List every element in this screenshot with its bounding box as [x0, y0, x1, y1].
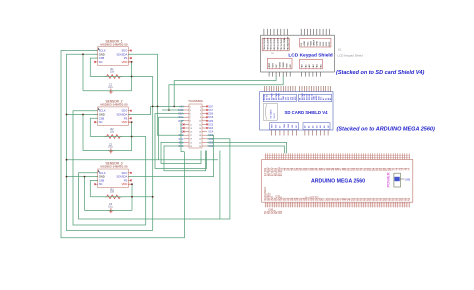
module U1 LCD Keypad Shield	[261, 29, 335, 77]
sensor U3 SENSOR_2 MS5803-14BA01-00	[94, 100, 132, 126]
svg-text:NC2: NC2	[295, 97, 297, 100]
svg-text:1: 1	[190, 106, 191, 108]
wire TCA SCL under-box	[159, 117, 185, 160]
wire TCA SDA under-box	[155, 114, 207, 169]
svg-text:4: 4	[310, 46, 311, 48]
svg-text:GND: GND	[283, 62, 285, 67]
svg-text:VDD: VDD	[122, 60, 128, 64]
svg-text:MS5803-14BA01-00: MS5803-14BA01-00	[100, 165, 128, 169]
module U2 Arduino Mega 2560	[262, 153, 413, 214]
svg-text:A0: A0	[304, 126, 307, 128]
wire TCA GND row	[162, 109, 184, 111]
wire TCA SC2 to Arduino pin20	[207, 146, 284, 153]
svg-text:NC: NC	[99, 120, 103, 124]
svg-text:SD2: SD2	[208, 141, 213, 144]
wire sensor1 SCLK to left rail	[61, 51, 185, 238]
svg-text:6: 6	[280, 50, 281, 52]
svg-text:USB: USB	[405, 177, 411, 181]
svg-text:TCA9548A: TCA9548A	[188, 99, 203, 103]
svg-text:LCD Keypad Shield: LCD Keypad Shield	[338, 54, 364, 58]
svg-text:ARDUINO MEGA 2560: ARDUINO MEGA 2560	[311, 179, 365, 185]
svg-text:GND: GND	[317, 40, 319, 45]
junction VIN sensor1 SDA	[157, 106, 159, 108]
wire TCA VIN row	[151, 105, 185, 107]
wire sensor1 VDD stub	[128, 61, 131, 63]
svg-text:SDI/SDA: SDI/SDA	[117, 113, 128, 117]
wire R2 row	[90, 136, 131, 138]
capacitor C2 0.1u	[108, 143, 114, 153]
junction sensor2 VDD	[131, 121, 133, 123]
svg-text:LCD Keypad Shield: LCD Keypad Shield	[288, 52, 332, 58]
junction VIN 5V rail	[173, 106, 175, 108]
annotation stacked on SD card shield	[336, 70, 424, 76]
svg-text:2: 2	[305, 68, 306, 70]
svg-text:3: 3	[276, 68, 277, 70]
svg-text:SC3: SC3	[208, 138, 213, 141]
wire sensor3 VDD vertical	[131, 184, 133, 210]
junction sensor2 GND C2	[82, 114, 84, 116]
svg-text:U1: U1	[338, 48, 342, 52]
svg-text:NC: NC	[99, 60, 103, 64]
wire sensor1 CSB to R1	[90, 58, 97, 76]
svg-text:9: 9	[190, 121, 191, 123]
svg-text:CSB: CSB	[99, 178, 105, 182]
svg-text:SCL: SCL	[179, 116, 184, 119]
wire TCA SC1 row	[164, 146, 206, 171]
svg-text:D6 LCD D6: D6 LCD D6	[277, 37, 279, 49]
svg-text:10: 10	[328, 46, 330, 48]
wire R3 extension	[132, 196, 153, 198]
junction sensor1 GND C1	[82, 53, 84, 55]
svg-text:13: 13	[190, 128, 192, 130]
wire sensor3 VDD stub	[128, 183, 132, 185]
wire sensor3 SDA to TCA SD3	[128, 135, 213, 176]
svg-text:SDA: SDA	[310, 41, 313, 46]
svg-text:16: 16	[199, 132, 201, 134]
svg-text:D10 LCDBL: D10 LCDBL	[284, 37, 286, 50]
svg-text:SC2: SC2	[208, 145, 213, 148]
wire sensor3 GND stub	[67, 176, 98, 178]
svg-text:3V3: 3V3	[276, 125, 278, 128]
svg-text:PS: PS	[124, 178, 128, 182]
wire sensor1 VDD vertical	[131, 62, 133, 91]
capacitor C1 0.1u	[108, 84, 114, 94]
resistor R1 10k	[105, 68, 123, 78]
junction sensor1 VDD	[131, 61, 133, 63]
svg-text:23: 23	[190, 146, 192, 148]
junction R2 VDD	[131, 136, 133, 138]
sensor U2 SENSOR_1 MS5803-14BA01-00	[94, 39, 132, 65]
svg-text:NC: NC	[290, 64, 292, 68]
svg-text:SDA: SDA	[178, 113, 183, 116]
svg-text:MS5803-14BA01-00: MS5803-14BA01-00	[100, 103, 128, 107]
wire sensor1 GND to ground rail	[67, 54, 153, 230]
junction sensor3 GND C3	[84, 176, 86, 178]
wire TCA RST	[181, 121, 185, 152]
svg-text:GND: GND	[99, 113, 105, 117]
svg-text:POWER: POWER	[385, 172, 390, 187]
svg-text:4: 4	[279, 68, 280, 70]
svg-text:6: 6	[316, 46, 317, 48]
svg-text:SD3: SD3	[208, 134, 213, 137]
svg-text:SDI/SDA: SDI/SDA	[117, 52, 128, 56]
resistor R2 10k	[105, 128, 123, 138]
svg-text:2: 2	[304, 46, 305, 48]
svg-text:2: 2	[272, 68, 273, 70]
svg-text:2: 2	[200, 106, 201, 108]
svg-text:VIN: VIN	[179, 105, 183, 108]
wire C3 row	[85, 209, 133, 211]
svg-text:18: 18	[199, 135, 201, 137]
svg-text:SCLK: SCLK	[99, 171, 106, 175]
svg-text:SC4: SC4	[208, 131, 213, 134]
wire C1 row	[83, 90, 132, 92]
wire C1 ground vertical	[82, 54, 84, 91]
svg-text:SLOT: SLOT	[274, 112, 276, 118]
svg-text:SD6: SD6	[208, 113, 213, 116]
svg-text:3: 3	[270, 50, 271, 52]
svg-text:10: 10	[199, 121, 201, 123]
svg-text:21: 21	[190, 142, 192, 144]
svg-text:SC5: SC5	[208, 123, 213, 126]
svg-text:3: 3	[309, 68, 310, 70]
svg-text:8: 8	[323, 46, 324, 48]
svg-text:12: 12	[199, 124, 201, 126]
svg-text:1: 1	[269, 68, 270, 70]
svg-text:6: 6	[200, 114, 201, 116]
wire C2 ground vertical	[82, 115, 84, 151]
wire sensor1 SDA to TCA SD0	[128, 54, 184, 135]
svg-text:CSB: CSB	[99, 56, 105, 60]
svg-text:SD7: SD7	[208, 105, 213, 108]
svg-text:A4: A4	[319, 126, 322, 128]
svg-text:GND: GND	[178, 109, 184, 112]
label U1 designator	[338, 48, 364, 58]
svg-text:VDD: VDD	[122, 182, 128, 186]
svg-text:15: 15	[190, 132, 192, 134]
svg-text:CSB: CSB	[99, 116, 105, 120]
svg-text:24: 24	[199, 146, 201, 148]
svg-text:PS: PS	[124, 56, 128, 60]
svg-text:GND: GND	[99, 52, 105, 56]
svg-text:19: 19	[190, 139, 192, 141]
svg-text:22: 22	[199, 142, 201, 144]
svg-text:SDO: SDO	[121, 49, 127, 53]
wire sensor2 SDA to VIN row	[128, 106, 150, 114]
junction sensor2 GND rail	[66, 114, 68, 116]
svg-text:3: 3	[190, 110, 191, 112]
wire vertical below TCA	[219, 151, 221, 220]
wire ground return under TCA	[67, 159, 219, 161]
junction R3 VDD	[131, 196, 133, 198]
wire sensor2 VDD vertical	[131, 122, 133, 151]
wire C3 ground vertical	[84, 177, 86, 211]
svg-text:0.1u: 0.1u	[108, 206, 113, 208]
svg-text:7: 7	[190, 117, 191, 119]
svg-text:SD4: SD4	[208, 127, 213, 130]
svg-text:D8 LCD RS: D8 LCD RS	[264, 37, 266, 49]
wire R1 row	[90, 76, 131, 78]
svg-text:SDO: SDO	[121, 109, 127, 113]
wire GND rail	[169, 76, 283, 110]
svg-text:SCLK: SCLK	[99, 109, 106, 113]
svg-text:D9 LCD EN: D9 LCD EN	[267, 37, 269, 49]
svg-text:GND: GND	[288, 123, 290, 128]
junction R1 VDD	[131, 76, 133, 78]
svg-text:D4 LCD D4: D4 LCD D4	[270, 37, 273, 49]
svg-text:GND: GND	[99, 175, 105, 179]
svg-text:2: 2	[267, 50, 268, 52]
svg-text:5: 5	[190, 114, 191, 116]
I2C multiplexer TCA9548A	[178, 99, 214, 148]
svg-text:MS5803-14BA01-00: MS5803-14BA01-00	[100, 42, 128, 46]
svg-text:SCLK: SCLK	[99, 49, 106, 53]
svg-text:11: 11	[190, 124, 192, 126]
wire TCA SD1 row	[161, 142, 201, 163]
svg-text:GND: GND	[280, 62, 282, 67]
svg-text:7: 7	[284, 50, 285, 52]
svg-text:0.1u: 0.1u	[108, 147, 113, 149]
svg-text:D4: D4	[271, 53, 273, 55]
resistor R3 10k	[105, 188, 123, 198]
svg-text:8: 8	[200, 117, 201, 119]
wire sensor2 VDD stub	[128, 121, 131, 123]
svg-text:VIN: VIN	[287, 63, 289, 67]
svg-text:4: 4	[200, 110, 201, 112]
wire 5V rail	[174, 76, 276, 106]
svg-text:RST: RST	[269, 62, 271, 67]
junction VIN R1ext	[152, 106, 154, 108]
junction sensor3 VDD	[131, 183, 133, 185]
svg-text:0.1u: 0.1u	[108, 87, 113, 89]
svg-text:14: 14	[199, 128, 201, 130]
svg-text:PS: PS	[124, 116, 128, 120]
svg-text:17: 17	[190, 135, 192, 137]
svg-text:GND: GND	[284, 123, 286, 128]
svg-text:(Stacked on to SD card Shield: (Stacked on to SD card Shield V4)	[336, 70, 424, 76]
wire R1 extension long vertical	[132, 77, 153, 231]
capacitor C3 0.1u	[108, 203, 114, 213]
svg-text:A3: A3	[329, 98, 332, 100]
wire C2 row	[83, 150, 132, 152]
svg-text:D5 LCD D5: D5 LCD D5	[274, 37, 276, 49]
wire sensor3 SCLK to rail	[79, 139, 230, 219]
wire R3 row	[90, 196, 132, 198]
junction ground return rail	[66, 159, 68, 161]
svg-text:SDO: SDO	[121, 171, 127, 175]
svg-text:20: 20	[199, 139, 201, 141]
junction sensor3 GND rail	[66, 176, 68, 178]
svg-text:GND: GND	[304, 40, 306, 45]
svg-text:A1: A1	[308, 126, 311, 128]
svg-text:SD CARD SHIELD V4: SD CARD SHIELD V4	[285, 110, 329, 115]
svg-text:A3: A3	[315, 126, 318, 128]
wire sensor2 GND stub	[67, 114, 98, 116]
svg-text:D7 LCD D7: D7 LCD D7	[281, 37, 283, 49]
svg-text:A0 BUTTON: A0 BUTTON	[287, 36, 290, 49]
wire sensor2 CSB to R2	[90, 118, 97, 136]
svg-text:SD5: SD5	[208, 120, 213, 123]
svg-text:SDI/SDA: SDI/SDA	[117, 175, 128, 179]
junction GND rail TCA	[168, 109, 170, 111]
svg-text:AREF: AREF	[313, 39, 316, 45]
svg-text:A2: A2	[312, 126, 315, 128]
svg-text:VDD: VDD	[122, 120, 128, 124]
svg-text:NC: NC	[99, 182, 103, 186]
junction R3ext R1ext vertical	[152, 196, 154, 198]
module U3 SD Card Shield V4	[260, 86, 333, 136]
wire R2 extension	[132, 137, 146, 226]
wire sensor3 CSB to R3	[90, 180, 97, 196]
wire TCA SD2 to Arduino pin21	[207, 142, 287, 153]
svg-text:SC6: SC6	[208, 116, 213, 119]
svg-text:(Stacked on to ARDUINO MEGA 25: (Stacked on to ARDUINO MEGA 2560)	[337, 127, 435, 133]
wire sensor2 SCLK to rail	[73, 111, 146, 225]
sensor U4 SENSOR_3 MS5803-14BA01-00	[94, 162, 132, 188]
annotation stacked on Arduino Mega	[337, 127, 435, 133]
svg-text:A5: A5	[323, 126, 326, 128]
svg-text:SD CARD: SD CARD	[270, 109, 273, 119]
svg-text:SC7: SC7	[208, 109, 213, 112]
